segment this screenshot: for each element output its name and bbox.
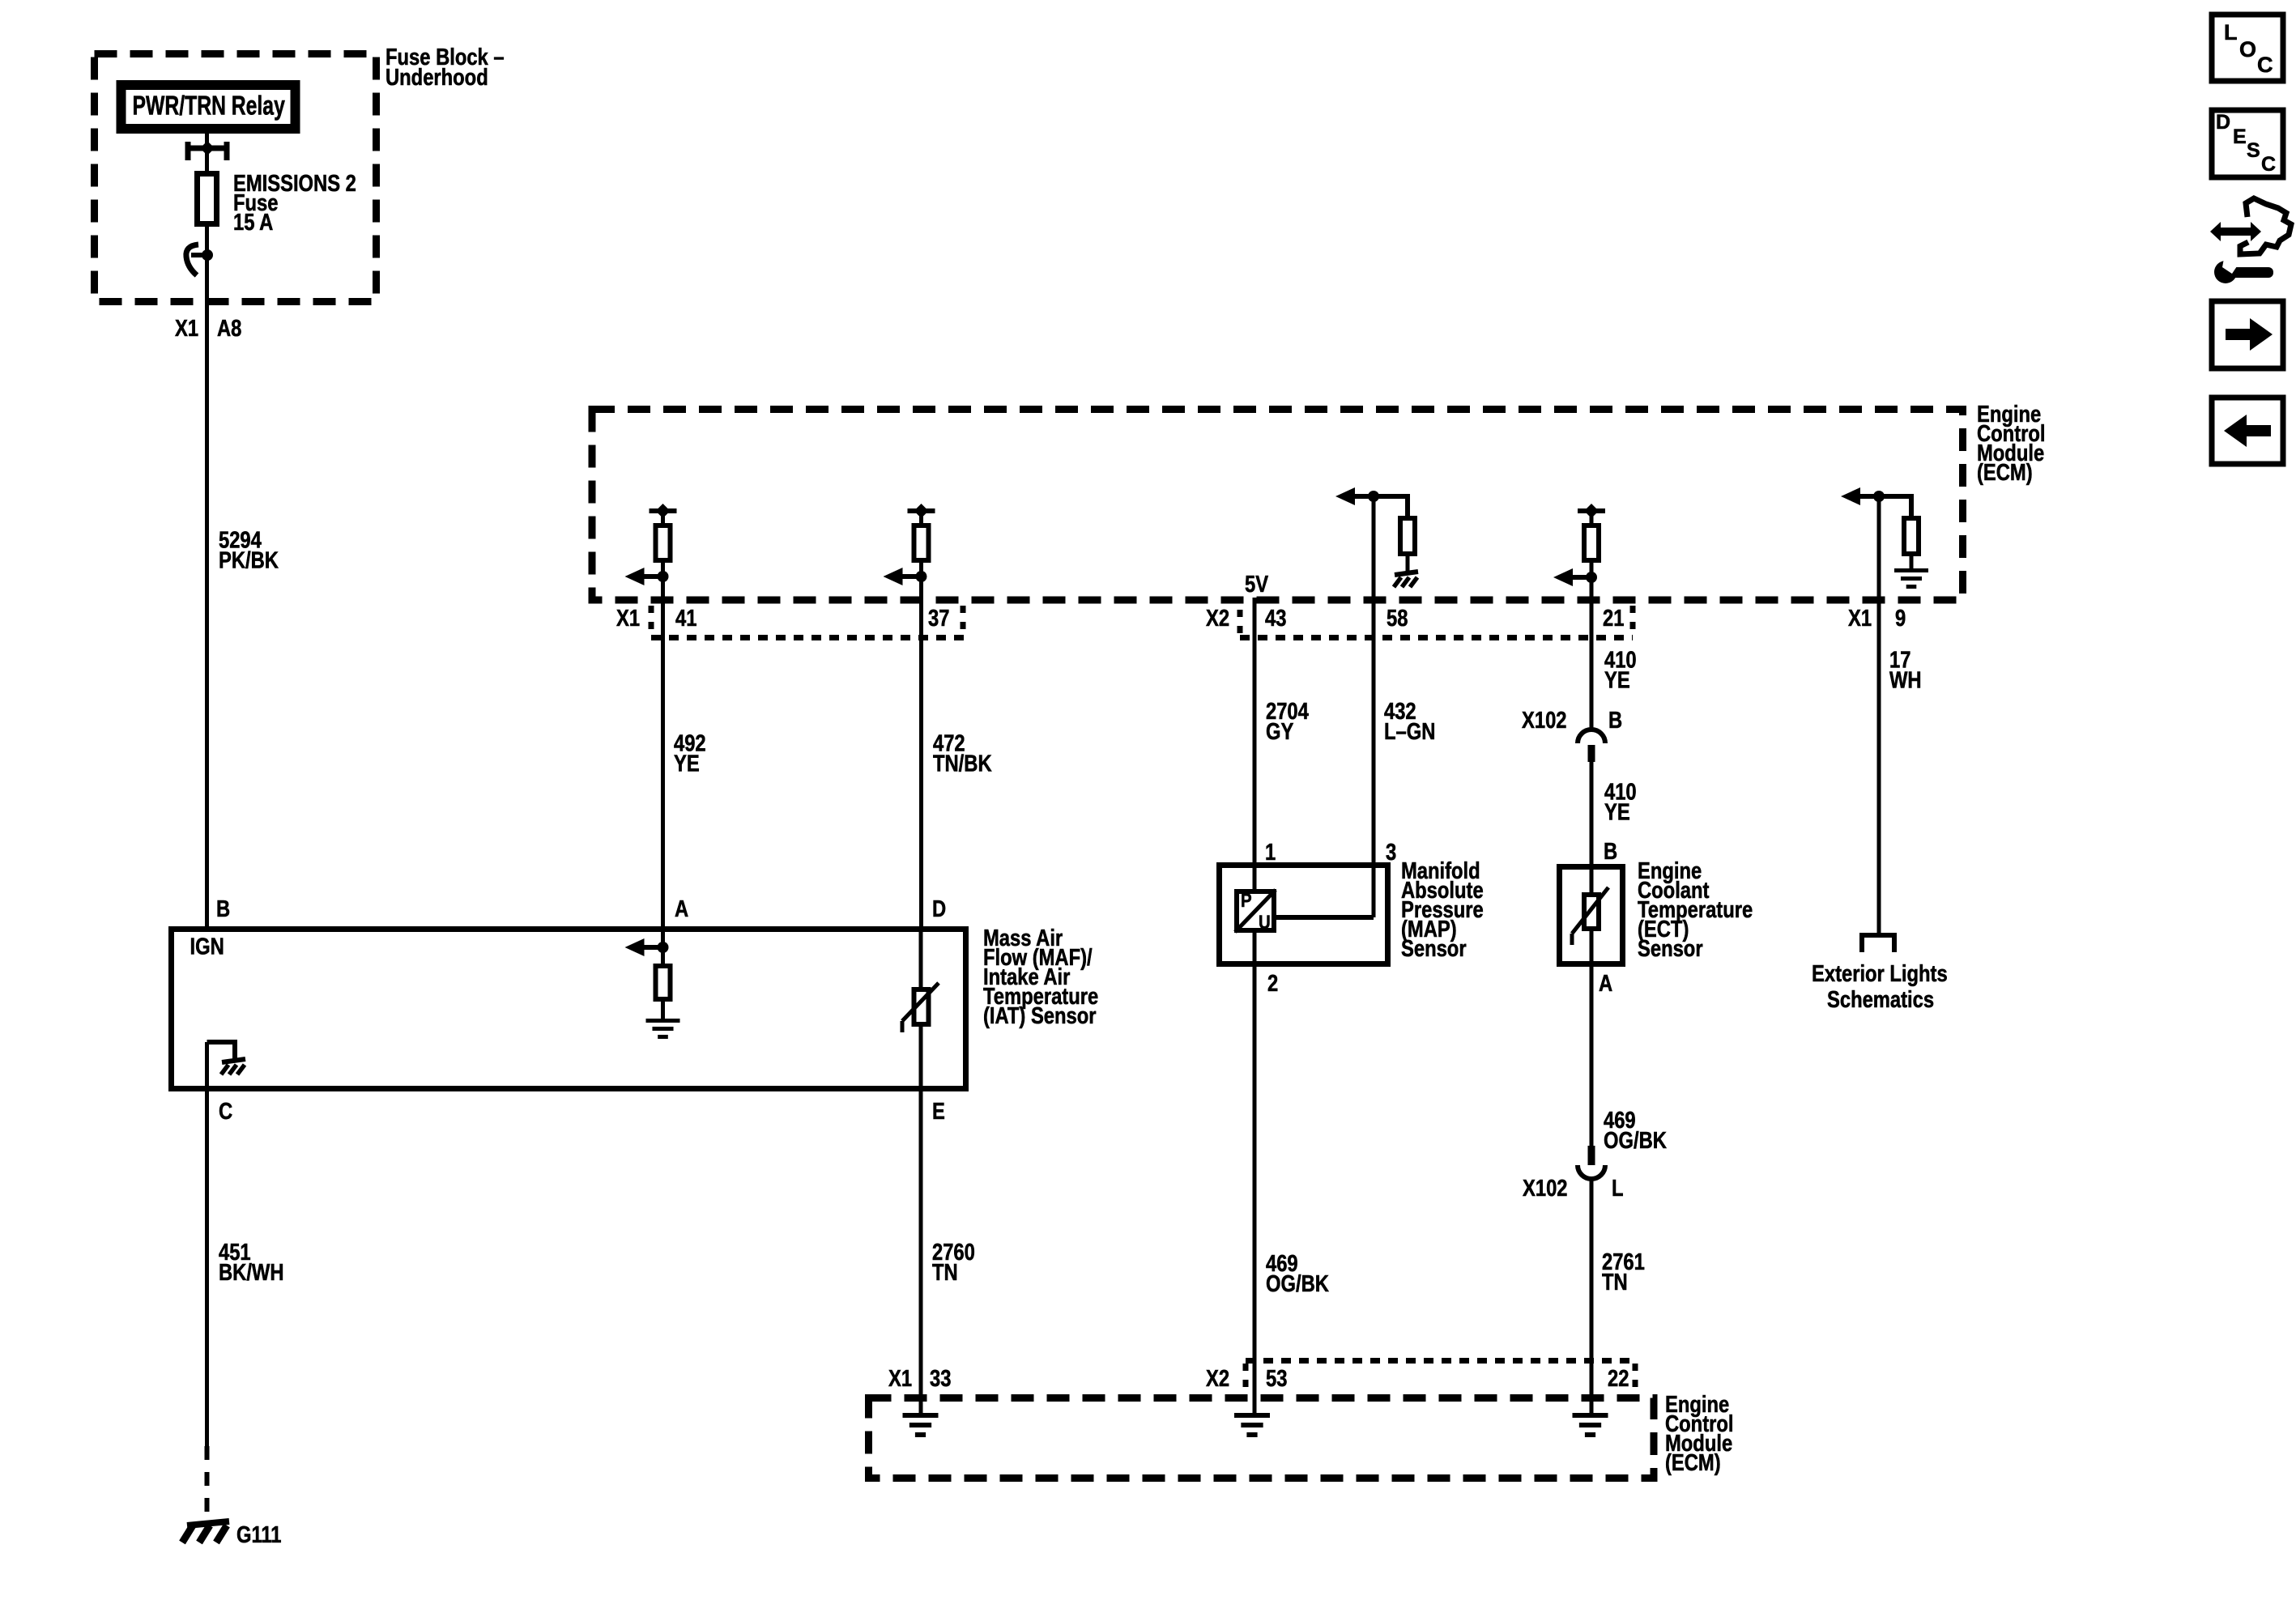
svg-text:D: D (932, 896, 946, 922)
terminal bar pin 37 (908, 508, 935, 513)
MAP sensor box (1220, 866, 1388, 964)
svg-text:410YE: 410YE (1604, 778, 1637, 825)
wire MAF pin E to ECM pin 33 (2760 TN) (919, 1091, 923, 1414)
svg-text:A8: A8 (217, 315, 241, 342)
MAP P/U transducer symbol (1235, 889, 1276, 933)
branch to pullup resistor pin 58 (1374, 496, 1408, 518)
svg-text:1: 1 (1265, 839, 1276, 866)
svg-text:U: U (1259, 911, 1271, 933)
stub below resistor 58 (1406, 556, 1410, 572)
svg-text:EngineCoolantTemperature(ECT)S: EngineCoolantTemperature(ECT)Sensor (1638, 857, 1753, 962)
svg-text:X2: X2 (1206, 605, 1229, 632)
resistor at pin 41 (656, 525, 671, 560)
svg-text:B: B (1604, 838, 1617, 865)
svg-text:9: 9 (1895, 605, 1906, 632)
connector X1 dotted boundary right (961, 606, 966, 638)
dashed wire to G111 (205, 1446, 210, 1521)
svg-text:E: E (932, 1098, 945, 1125)
svg-text:G111: G111 (236, 1521, 282, 1548)
connector X2 dotted boundary left (1237, 610, 1243, 636)
MAF pin C internal branch to chassis ground (207, 1042, 236, 1061)
svg-text:X102: X102 (1522, 707, 1566, 734)
wire through ECT (1590, 893, 1594, 1146)
svg-text:Schematics: Schematics (1827, 986, 1934, 1013)
svg-text:X1: X1 (888, 1365, 912, 1392)
bottom connector X2 dotted boundary right (1633, 1364, 1638, 1394)
ECT sensor box (1560, 867, 1623, 964)
inline connector X102 L arc (1578, 1165, 1605, 1179)
connector X1 dotted boundary left (649, 606, 654, 633)
svg-text:O: O (2239, 37, 2256, 62)
icon back arrow (2212, 398, 2283, 464)
svg-text:EngineControlModule(ECM): EngineControlModule(ECM) (1977, 401, 2045, 486)
earth ground at pin 9 resistor (1894, 568, 1928, 572)
svg-text:EngineControlModule(ECM): EngineControlModule(ECM) (1665, 1391, 1733, 1476)
svg-text:2704GY: 2704GY (1266, 698, 1309, 745)
connector terminal below relay (185, 141, 229, 160)
svg-text:X1: X1 (616, 605, 640, 632)
engine control module dashed box (592, 410, 1963, 601)
wire MAF pin C (205, 1042, 209, 1446)
resistor MAF internal (656, 966, 671, 999)
svg-text:X2: X2 (1206, 1365, 1229, 1392)
branch to pullup resistor pin 9 (1879, 496, 1911, 518)
wire fuse to MAF pin B (5294 PK/BK) (205, 224, 209, 930)
wire ECM pin 58 to MAP pin 3 (432 L-GN) (1372, 496, 1376, 917)
signal arrow at pin 37 (900, 574, 922, 579)
icon forward arrow (2212, 301, 2283, 368)
icon LOC (2212, 15, 2283, 81)
svg-text:EMISSIONS 2Fuse15 A: EMISSIONS 2Fuse15 A (233, 170, 356, 236)
svg-text:Exterior Lights: Exterior Lights (1812, 960, 1948, 987)
icon diagnostic aids (part with wrench) (2210, 198, 2291, 283)
ECT thermistor symbol (1572, 887, 1608, 945)
svg-text:B: B (216, 896, 230, 922)
terminal bar pin 21 (1578, 508, 1605, 513)
MAP internal link pin3 to P/U (1276, 915, 1374, 920)
MAF IAT sensor box (172, 930, 966, 1089)
svg-text:Fuse Block –Underhood: Fuse Block –Underhood (386, 44, 505, 91)
resistor at pin 9 (1904, 518, 1919, 554)
inline connector X102 B arc (1578, 730, 1605, 743)
svg-text:X102: X102 (1523, 1175, 1567, 1202)
svg-text:L: L (2224, 20, 2238, 45)
earth ground MAF internal (646, 1019, 680, 1023)
clip connector on wire (186, 245, 207, 275)
relay PWR/TRN Relay (121, 85, 296, 129)
inline connector X102 B pin (1588, 745, 1595, 762)
svg-text:C: C (2261, 153, 2276, 176)
wire ECM pin 21 to X102 B (410 YE) (1590, 513, 1594, 730)
chassis ground MAF internal (222, 1059, 245, 1062)
svg-text:D: D (2216, 111, 2230, 134)
chassis ground at pin 58 resistor (1395, 572, 1418, 575)
svg-text:43: 43 (1265, 605, 1286, 632)
svg-text:S: S (2247, 139, 2260, 162)
svg-text:451BK/WH: 451BK/WH (219, 1239, 284, 1286)
svg-text:C: C (2257, 53, 2273, 77)
svg-text:Mass AirFlow (MAF)/Intake AirT: Mass AirFlow (MAF)/Intake AirTemperature… (983, 925, 1098, 1029)
resistor at pin 37 (914, 525, 929, 560)
svg-text:5294PK/BK: 5294PK/BK (219, 526, 279, 573)
inline connector X102 L pin (1588, 1146, 1595, 1165)
svg-text:469OG/BK: 469OG/BK (1266, 1250, 1329, 1297)
bottom connector X2 dotted boundary left (1243, 1364, 1249, 1394)
signal arrow MAF pin A (641, 945, 663, 950)
svg-text:492YE: 492YE (674, 730, 706, 776)
svg-text:C: C (219, 1098, 232, 1125)
svg-text:5V: 5V (1245, 571, 1268, 598)
fuse EMISSIONS 2 15 A (198, 174, 217, 224)
wire relay to fuse (205, 132, 209, 174)
svg-text:A: A (1599, 970, 1612, 997)
resistor at pin 21 (1584, 525, 1599, 560)
earth ground pin 22 (1573, 1413, 1608, 1418)
connector X1 dotted line (651, 635, 965, 640)
svg-text:2760TN: 2760TN (932, 1239, 975, 1286)
IAT thermistor symbol (902, 983, 939, 1032)
wire 5V pin 43 to MAP pin 1 (2704 GY) (1253, 598, 1257, 967)
svg-text:P: P (1241, 889, 1252, 911)
wire X102 L to ECM pin 22 (2761 TN) (1590, 1179, 1594, 1414)
svg-text:2: 2 (1267, 970, 1278, 997)
fuse block underhood dashed box (95, 54, 377, 302)
terminal bar pin 41 (650, 508, 677, 513)
svg-text:B: B (1608, 707, 1622, 734)
bottom engine control module dashed box (869, 1398, 1655, 1478)
svg-text:53: 53 (1266, 1365, 1287, 1392)
svg-text:410YE: 410YE (1604, 646, 1637, 693)
svg-text:21: 21 (1603, 605, 1624, 632)
svg-text:ManifoldAbsolutePressure(MAP)S: ManifoldAbsolutePressure(MAP)Sensor (1401, 857, 1484, 962)
svg-text:33: 33 (930, 1365, 951, 1392)
svg-text:17WH: 17WH (1889, 646, 1922, 693)
svg-text:472TN/BK: 472TN/BK (933, 730, 992, 776)
wire X102 B to ECT pin B (410 YE) (1590, 762, 1594, 893)
svg-text:X1: X1 (1848, 605, 1872, 632)
connector X2 dotted line (1240, 635, 1633, 640)
svg-text:3: 3 (1386, 839, 1396, 866)
svg-text:X1: X1 (175, 315, 198, 342)
svg-text:A: A (675, 896, 688, 922)
chassis ground G111 (187, 1521, 229, 1525)
earth ground pin 53 (1234, 1413, 1270, 1418)
wire ECM pin 41 to MAF pin A (492 YE) (661, 513, 665, 964)
svg-text:41: 41 (675, 605, 696, 632)
svg-text:L: L (1612, 1175, 1624, 1202)
svg-text:IGN: IGN (190, 933, 224, 959)
stub below resistor 9 (1910, 556, 1914, 568)
bottom ECM connector dotted line (1246, 1358, 1635, 1364)
earth ground pin 33 (903, 1413, 939, 1418)
svg-text:2761TN: 2761TN (1602, 1249, 1645, 1296)
signal arrow at pin 41 (641, 574, 663, 579)
svg-text:22: 22 (1608, 1365, 1629, 1392)
svg-text:E: E (2233, 126, 2247, 148)
icon DESC (2212, 110, 2283, 177)
svg-text:469OG/BK: 469OG/BK (1604, 1107, 1667, 1154)
signal arrow at pin 58 (1352, 494, 1374, 499)
svg-text:58: 58 (1387, 605, 1408, 632)
junction dot at clip (202, 249, 213, 261)
svg-text:PWR/TRN Relay: PWR/TRN Relay (133, 91, 286, 121)
wire MAF pin D internal (919, 930, 923, 1091)
svg-text:432L–GN: 432L–GN (1384, 698, 1435, 745)
wire MAP pin 2 to ECM pin 53 (469 OG/BK) (1253, 967, 1257, 1414)
signal arrow at pin 9 (1857, 494, 1879, 499)
svg-text:37: 37 (928, 605, 949, 632)
off-page connector bracket (1862, 935, 1894, 952)
signal arrow at pin 21 (1570, 575, 1591, 580)
stub below MAF resistor (661, 1002, 665, 1019)
wire ECM pin 37 to MAF pin D (472 TN/BK) (919, 513, 923, 930)
connector X2 dotted boundary right (1630, 606, 1636, 633)
resistor at pin 58 (1400, 518, 1415, 554)
wire ECM pin X1-9 to exterior lights (17 WH) (1877, 496, 1881, 935)
